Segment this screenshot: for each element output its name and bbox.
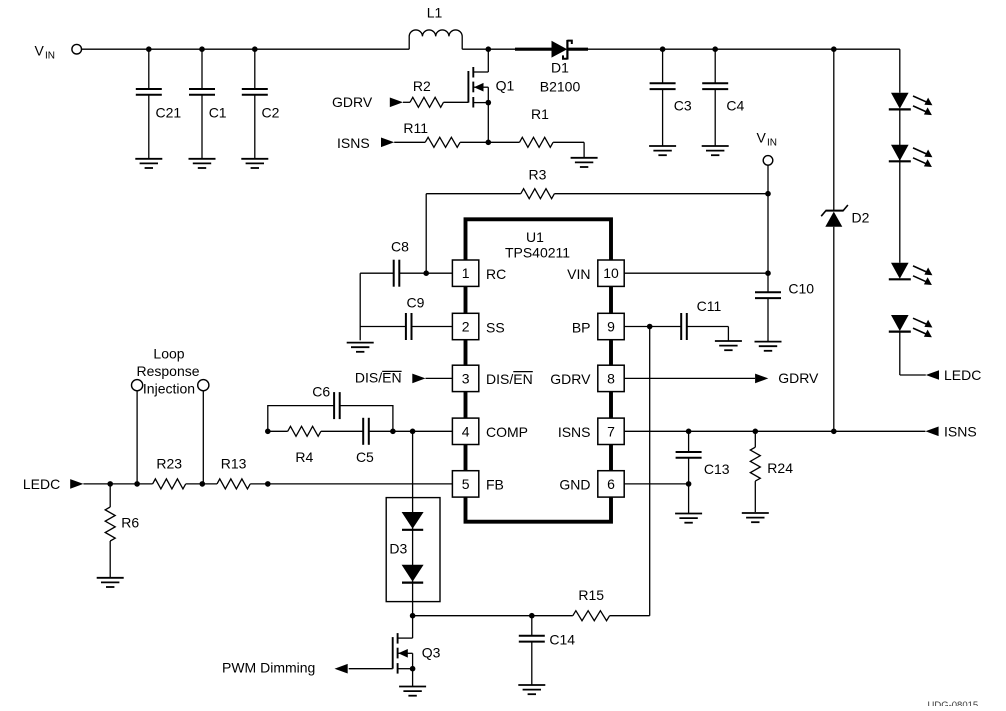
svg-text:C10: C10 [788, 281, 814, 297]
svg-text:R2: R2 [413, 78, 431, 94]
svg-text:C14: C14 [549, 632, 575, 648]
svg-text:D1: D1 [551, 60, 569, 76]
svg-text:3: 3 [462, 370, 470, 386]
svg-text:ISNS: ISNS [337, 135, 370, 151]
svg-text:Injection: Injection [143, 381, 195, 397]
svg-text:Loop: Loop [153, 345, 184, 361]
svg-text:D2: D2 [852, 209, 870, 225]
svg-text:ISNS: ISNS [944, 423, 977, 439]
svg-text:4: 4 [462, 423, 470, 439]
svg-text:SS: SS [486, 319, 505, 335]
svg-text:C3: C3 [674, 98, 692, 114]
svg-text:R6: R6 [121, 515, 139, 531]
svg-text:GND: GND [559, 477, 590, 493]
svg-text:BP: BP [572, 319, 591, 335]
svg-text:C8: C8 [391, 239, 409, 255]
svg-text:2: 2 [462, 319, 470, 335]
svg-text:B2100: B2100 [540, 79, 581, 95]
svg-text:10: 10 [603, 265, 619, 281]
svg-text:ISNS: ISNS [558, 424, 591, 440]
svg-text:R24: R24 [767, 460, 793, 476]
svg-text:C1: C1 [209, 105, 227, 121]
svg-text:1: 1 [462, 265, 470, 281]
svg-text:C2: C2 [262, 105, 280, 121]
svg-text:IN: IN [45, 51, 55, 62]
svg-text:Q1: Q1 [496, 78, 515, 94]
svg-text:5: 5 [462, 476, 470, 492]
svg-text:7: 7 [607, 423, 615, 439]
svg-text:R13: R13 [221, 455, 247, 471]
svg-text:Response: Response [136, 363, 199, 379]
svg-text:C9: C9 [407, 295, 425, 311]
svg-text:L1: L1 [427, 5, 443, 21]
svg-text:R15: R15 [578, 587, 604, 603]
svg-text:UDG-08015: UDG-08015 [928, 700, 979, 706]
svg-text:VIN: VIN [567, 266, 590, 282]
svg-text:DIS/EN: DIS/EN [486, 371, 533, 387]
svg-text:COMP: COMP [486, 424, 528, 440]
svg-text:Q3: Q3 [422, 644, 441, 660]
svg-text:V: V [757, 130, 767, 146]
svg-text:R23: R23 [156, 455, 182, 471]
svg-text:8: 8 [607, 370, 615, 386]
svg-text:R4: R4 [295, 449, 313, 465]
svg-text:C4: C4 [726, 98, 744, 114]
svg-text:GDRV: GDRV [550, 371, 591, 387]
svg-text:TPS40211: TPS40211 [505, 245, 570, 261]
svg-text:R11: R11 [403, 120, 428, 136]
svg-text:R3: R3 [529, 167, 547, 183]
svg-text:C5: C5 [356, 449, 374, 465]
svg-text:C6: C6 [312, 383, 330, 399]
svg-text:6: 6 [607, 476, 615, 492]
svg-text:IN: IN [767, 138, 777, 149]
svg-text:D3: D3 [389, 540, 407, 556]
svg-text:U1: U1 [526, 229, 544, 245]
svg-text:LEDC: LEDC [23, 476, 60, 492]
svg-text:GDRV: GDRV [332, 94, 373, 110]
svg-text:C11: C11 [697, 298, 722, 314]
svg-text:GDRV: GDRV [778, 370, 819, 386]
svg-text:RC: RC [486, 266, 506, 282]
svg-text:PWM Dimming: PWM Dimming [222, 659, 315, 675]
svg-text:C13: C13 [704, 461, 730, 477]
svg-text:V: V [35, 43, 45, 59]
svg-text:9: 9 [607, 319, 615, 335]
svg-text:LEDC: LEDC [944, 367, 981, 383]
svg-text:R1: R1 [531, 106, 549, 122]
svg-text:C21: C21 [156, 105, 182, 121]
svg-text:FB: FB [486, 477, 504, 493]
